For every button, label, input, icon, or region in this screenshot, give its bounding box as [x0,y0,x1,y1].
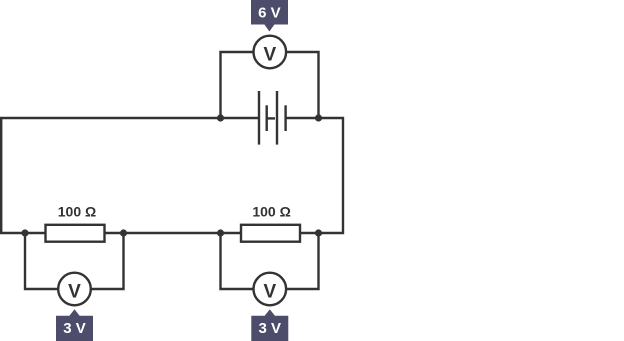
wire: outer circuit loop (top, left, bottom, right sides) [1,118,343,233]
node: bottom wire right of R1 [120,229,127,236]
battery B1 (two cells in series on top wire) [259,91,286,145]
node: top wire left of battery [217,114,224,121]
wire: top voltmeter branch right (from right battery node up and left to voltmeter) [287,52,319,118]
node: top wire right of battery [315,114,322,121]
voltmeter V3 (across R2, bottom right) [253,273,286,306]
wire: bottom-left voltmeter branch right (from node down and left to voltmeter) [91,233,124,289]
node: bottom wire left of R1 [21,229,28,236]
callout badge: 3 V reading below bottom-left voltmeter [56,309,93,341]
callout badge: 6 V reading above top voltmeter [251,0,288,32]
resistor R2 (box) [241,225,300,242]
wire: top voltmeter branch left (from left battery node up and right to voltmeter) [221,52,254,118]
svg-text:3 V: 3 V [63,320,86,337]
svg-text:100 Ω: 100 Ω [58,203,96,219]
svg-text:V: V [263,44,276,65]
wire: bottom-left voltmeter branch left (from node down and right to voltmeter) [25,233,58,289]
svg-text:3 V: 3 V [259,320,282,337]
voltmeter V2 (across R1, bottom left) [58,273,91,306]
node: bottom wire right of R2 [315,229,322,236]
resistor R1 (box) [46,225,105,242]
wire: bottom-right voltmeter branch left (from node down and right to voltmeter) [221,233,254,289]
svg-text:V: V [263,281,276,302]
svg-text:100 Ω: 100 Ω [252,203,290,219]
wire: bottom-right voltmeter branch right (from node down and left to voltmeter) [287,233,319,289]
voltmeter V1 (across battery, top) [253,36,286,69]
node: bottom wire left of R2 [217,229,224,236]
svg-text:6 V: 6 V [258,5,281,22]
callout badge: 3 V reading below bottom-right voltmeter [251,309,288,341]
svg-text:V: V [68,281,81,302]
